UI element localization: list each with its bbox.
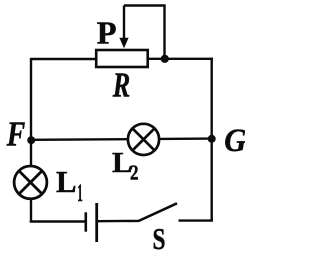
switch S blade (open) xyxy=(139,203,178,221)
svg-text:S: S xyxy=(153,221,166,253)
svg-text:G: G xyxy=(224,123,245,159)
svg-text:2: 2 xyxy=(130,161,139,185)
wire: top-left horizontal from left rail to rheostat xyxy=(30,58,96,60)
battery: long (positive) plate xyxy=(95,203,98,242)
wire: switch fixed contact to bottom-right corner xyxy=(179,219,213,221)
node F junction dot xyxy=(27,136,35,144)
svg-text:R: R xyxy=(112,66,130,105)
wire: left vertical rail through node F down to lamp L1 and bottom corner xyxy=(30,58,32,223)
svg-text:F: F xyxy=(6,114,25,153)
node G junction dot xyxy=(208,135,216,143)
rheostat R body xyxy=(96,50,148,67)
svg-text:L: L xyxy=(56,164,77,199)
svg-text:1: 1 xyxy=(77,180,83,207)
battery: short (negative) plate xyxy=(85,212,88,231)
wire: rheostat right terminal to top-right corner xyxy=(147,58,213,60)
wire: battery positive to switch pivot xyxy=(98,220,139,223)
svg-text:P: P xyxy=(97,14,117,50)
wire: slider loop (up, right, down to junction) xyxy=(124,6,165,59)
lamp L2 xyxy=(128,124,159,155)
lamp L1 xyxy=(14,166,47,199)
slider arrow P of rheostat xyxy=(119,6,128,49)
wire: middle horizontal F to G through lamp L2 xyxy=(31,139,212,140)
wire: bottom-left horizontal to battery negative plate xyxy=(30,220,85,222)
junction dot at rheostat right terminal xyxy=(161,55,169,63)
wire: right vertical rail through node G down to switch contact xyxy=(210,58,212,222)
